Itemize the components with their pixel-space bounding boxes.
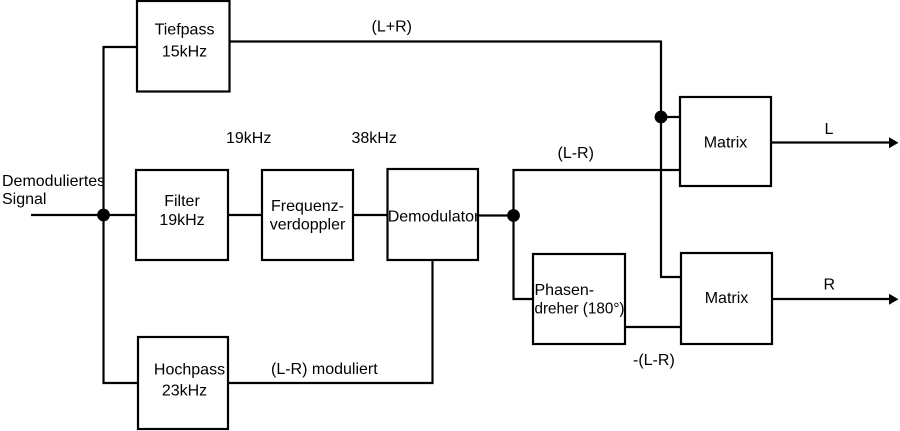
svg-text:verdoppler: verdoppler xyxy=(270,217,346,234)
svg-text:Demoduliertes: Demoduliertes xyxy=(2,173,105,190)
arrowhead L xyxy=(889,137,899,148)
svg-text:(L-R): (L-R) xyxy=(558,145,594,162)
wire to Tiefpass input xyxy=(103,46,138,48)
wire Hochpass output up to Demodulator bottom xyxy=(228,260,433,383)
block Matrix upper xyxy=(680,97,771,186)
block Phasendreher 180 xyxy=(533,254,625,344)
svg-text:-(L-R): -(L-R) xyxy=(633,352,675,369)
wire Matrix2 output R xyxy=(772,298,891,300)
svg-text:Matrix: Matrix xyxy=(705,290,749,307)
wire Tiefpass output (L+R) to right trunk xyxy=(229,40,661,42)
svg-text:R: R xyxy=(824,277,836,294)
svg-text:19kHz: 19kHz xyxy=(226,130,271,147)
svg-text:Filter: Filter xyxy=(164,193,200,210)
svg-text:(L+R): (L+R) xyxy=(372,19,412,36)
svg-text:Matrix: Matrix xyxy=(704,135,748,152)
junction node input branch xyxy=(97,209,110,222)
block Demodulator xyxy=(388,169,480,260)
block Frequenzverdoppler xyxy=(262,170,353,260)
wire vertical trunk left xyxy=(102,46,104,384)
junction node (L-R) xyxy=(507,209,520,222)
junction node (L+R) xyxy=(655,111,668,124)
block Matrix lower xyxy=(681,253,772,344)
svg-text:Hochpass: Hochpass xyxy=(154,362,225,379)
arrowhead R xyxy=(889,294,899,305)
wire trunk to Matrix2 upper input xyxy=(660,276,681,278)
svg-text:L: L xyxy=(825,121,834,138)
wire Phasendreher output to Matrix2 lower input xyxy=(625,326,681,328)
wire junction to Matrix1 upper input xyxy=(661,116,680,118)
wire Matrix1 output L xyxy=(771,141,891,143)
block Tiefpass 15kHz xyxy=(137,1,230,92)
svg-text:Tiefpass: Tiefpass xyxy=(155,22,215,39)
wire vertical trunk right x=661 xyxy=(660,41,662,278)
wire (L-R) junction up to Matrix1 lower input xyxy=(514,170,681,216)
svg-text:Frequenz-: Frequenz- xyxy=(271,198,344,215)
wire Demodulator output to junction xyxy=(478,214,514,216)
svg-text:Phasen-: Phasen- xyxy=(535,282,595,299)
svg-text:(L-R) moduliert: (L-R) moduliert xyxy=(271,361,378,378)
block Filter 19kHz xyxy=(136,170,228,260)
svg-text:dreher (180°): dreher (180°) xyxy=(535,301,625,318)
svg-text:23kHz: 23kHz xyxy=(162,383,207,400)
block Hochpass 23kHz xyxy=(138,337,228,429)
wire to Hochpass input xyxy=(103,382,139,384)
svg-text:Signal: Signal xyxy=(2,191,46,208)
svg-text:38kHz: 38kHz xyxy=(352,130,397,147)
wire Filter to Frequenzverdoppler xyxy=(228,214,262,216)
wire input horizontal xyxy=(31,214,136,216)
wire Frequenzverdoppler to Demodulator xyxy=(353,214,387,216)
label Demoduliertes Signal xyxy=(2,173,105,208)
svg-text:15kHz: 15kHz xyxy=(162,44,207,61)
svg-text:19kHz: 19kHz xyxy=(159,212,204,229)
svg-text:Demodulator: Demodulator xyxy=(388,209,480,226)
wire junction down to Phasendreher input xyxy=(514,215,534,299)
